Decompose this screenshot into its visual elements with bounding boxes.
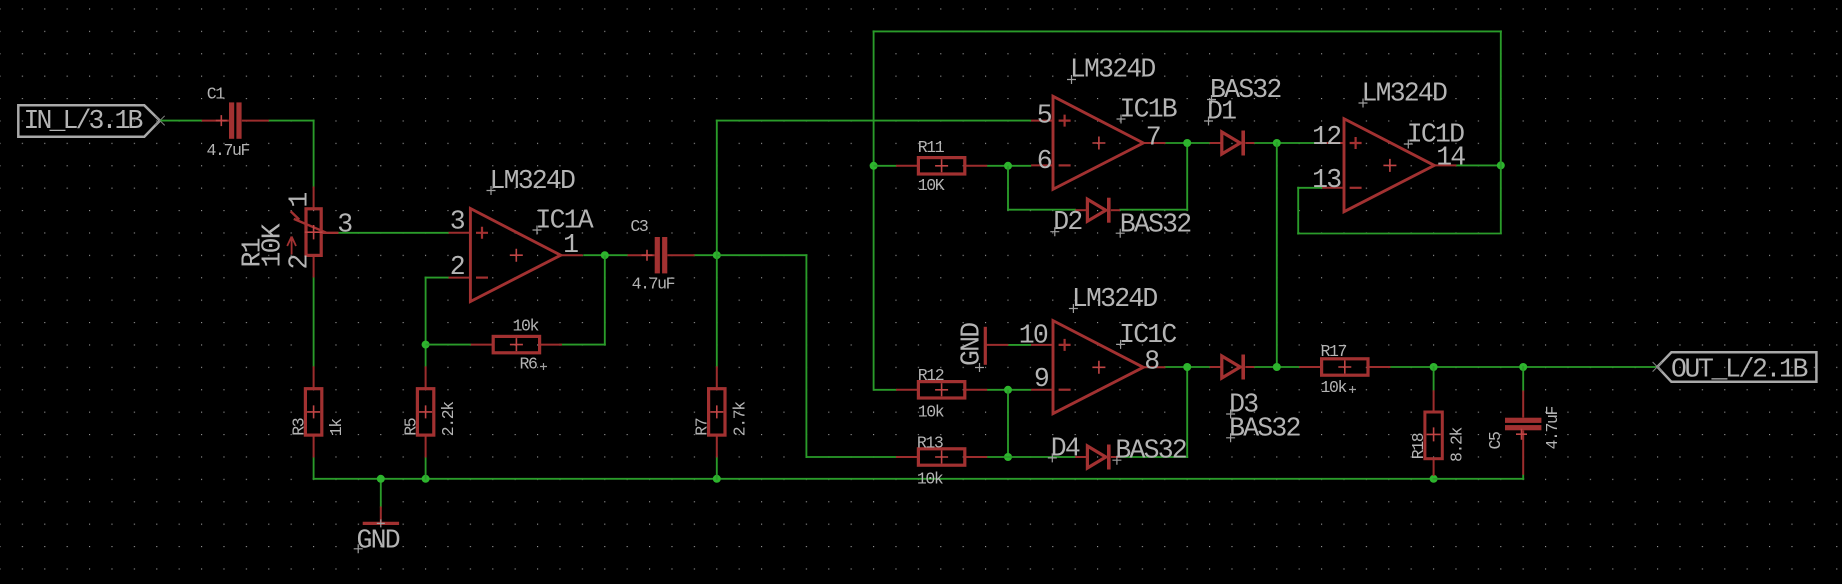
potentiometer R1 body	[287, 187, 338, 278]
wire IC1A pin2 left	[425, 277, 449, 279]
resistor R7 body	[709, 366, 725, 457]
svg-text:12: 12	[1312, 122, 1341, 152]
svg-text:D1: D1	[1207, 97, 1236, 127]
wire node up	[716, 120, 718, 257]
svg-text:14: 14	[1436, 143, 1465, 173]
wire node right	[717, 254, 808, 256]
diode D2 body	[1075, 198, 1120, 223]
wire bottom ground rail	[313, 478, 1435, 480]
junction IC1C output	[1183, 363, 1191, 371]
wire R5 bottom to rail	[425, 457, 427, 480]
svg-text:10k: 10k	[918, 402, 945, 421]
svg-text:10k: 10k	[513, 316, 540, 335]
capacitor C5 body	[1505, 391, 1541, 475]
junction pin9 node	[1004, 386, 1012, 394]
svg-text:10k: 10k	[917, 469, 944, 488]
junction C3 output node	[713, 251, 721, 259]
svg-text:4.7uF: 4.7uF	[207, 141, 250, 160]
wire R3 to bottom rail	[313, 457, 315, 480]
svg-text:3: 3	[450, 207, 465, 237]
wire down to R1 pin1	[313, 120, 315, 189]
wire C3 to node	[694, 254, 718, 256]
wire to IC1D pin13	[1297, 187, 1322, 189]
wire rail to GND symbol	[380, 479, 382, 508]
wire C1 to corner	[269, 120, 315, 122]
wire IC1D feedback down	[1500, 165, 1502, 233]
svg-text:R6: R6	[520, 355, 538, 374]
junction rail-R7	[713, 475, 721, 483]
svg-text:C5: C5	[1486, 432, 1505, 450]
junction IC1D output	[1497, 161, 1505, 169]
svg-text:IC1B: IC1B	[1120, 94, 1177, 124]
wire IC1D feedback bottom	[1297, 233, 1502, 235]
wire down to C5	[1522, 366, 1524, 391]
svg-text:5: 5	[1037, 101, 1052, 131]
wire R1 pin2 down to R3	[313, 276, 315, 367]
wire to IC1B pin5	[716, 120, 1031, 122]
svg-text:GND: GND	[957, 323, 987, 366]
wire to R13	[806, 456, 896, 458]
wire to R12	[874, 389, 897, 391]
svg-text:LM324D: LM324D	[490, 166, 576, 196]
diode D1 body	[1210, 131, 1255, 156]
svg-text:4.7uF: 4.7uF	[1543, 406, 1562, 449]
svg-text:1k: 1k	[327, 418, 346, 437]
wire D4 right	[1119, 456, 1188, 458]
junction R13-D4 node	[1004, 453, 1012, 461]
wire top rail	[873, 30, 1502, 32]
svg-text:C1: C1	[207, 84, 226, 103]
wire R18 bottom to rail	[1433, 475, 1435, 479]
wire feedback down	[604, 255, 606, 345]
diode D4 body	[1075, 445, 1120, 470]
svg-text:R12: R12	[918, 366, 944, 385]
svg-text:OUT_L/2.1B: OUT_L/2.1B	[1671, 354, 1808, 384]
wire down to R5/R6 node	[425, 277, 427, 368]
wire IC1D feedback up	[1297, 187, 1299, 235]
svg-text:R11: R11	[918, 138, 945, 157]
svg-text:4.7uF: 4.7uF	[632, 274, 675, 293]
svg-text:R7: R7	[693, 418, 712, 436]
junction IC1A output feedback	[601, 251, 609, 259]
junction D1 out tap	[1273, 139, 1281, 147]
junction R18 top	[1430, 363, 1438, 371]
junction rail-GND	[377, 475, 385, 483]
svg-text:C3: C3	[630, 217, 648, 236]
wire rail to C5	[1433, 478, 1525, 480]
svg-text:R5: R5	[402, 418, 421, 436]
wire R17 to OUT flag	[1389, 366, 1658, 368]
svg-text:8.2k: 8.2k	[1447, 426, 1466, 462]
net flag OUT_L/2.1B	[1653, 352, 1817, 384]
svg-text:IN_L/3.1B: IN_L/3.1B	[24, 106, 143, 136]
svg-text:LM324D: LM324D	[1362, 79, 1448, 109]
svg-text:1: 1	[563, 230, 578, 260]
wire D1 to IC1D pin12	[1254, 142, 1323, 144]
wire R13 to node	[986, 456, 1008, 458]
svg-text:9: 9	[1034, 364, 1049, 394]
svg-text:R18: R18	[1409, 433, 1428, 459]
svg-text:10: 10	[1019, 321, 1048, 351]
svg-text:1: 1	[285, 193, 315, 208]
junction R11 tap	[870, 162, 878, 170]
svg-text:10K: 10K	[918, 176, 945, 195]
wire down to R13 feed	[805, 254, 807, 458]
wire node to R6	[426, 344, 472, 346]
wire up to IC1C out	[1186, 366, 1188, 458]
op-amp IC1A body	[449, 209, 583, 302]
svg-text:R3: R3	[290, 418, 309, 436]
wire left vertical of top loop	[873, 30, 875, 390]
svg-text:10K: 10K	[258, 223, 288, 267]
svg-text:BAS32: BAS32	[1229, 413, 1300, 443]
junction IC1B output	[1183, 139, 1191, 147]
wire pin9 node down	[1007, 390, 1009, 458]
wire IC1B out to D1	[1164, 142, 1210, 144]
svg-text:7: 7	[1146, 123, 1160, 153]
svg-text:6: 6	[1037, 146, 1052, 176]
resistor R18 body	[1425, 390, 1442, 476]
wire IC1A out to C3	[583, 254, 628, 256]
ground symbol (IC1C pin10)	[985, 327, 1009, 365]
op-amp IC1B body	[1031, 96, 1165, 189]
resistor R3 body	[305, 366, 321, 457]
wire to R11	[874, 165, 897, 167]
wire IN_L flag to C1	[161, 120, 203, 122]
net flag IN_L/3.1B	[18, 105, 164, 136]
op-amp IC1C body	[1031, 321, 1165, 414]
wire node down to R7	[716, 255, 718, 367]
wire IC1C out to D3	[1164, 366, 1210, 368]
wire R7 bottom to rail	[716, 457, 718, 480]
resistor R11 body	[896, 158, 987, 174]
resistor R5 body	[417, 366, 433, 457]
wire to R6 right	[559, 344, 606, 346]
junction pin6 node	[1004, 162, 1012, 170]
capacitor C3 body	[628, 237, 695, 273]
wire C5 bottom corner	[1522, 475, 1524, 480]
junction C5 top	[1519, 363, 1527, 371]
wire R1 wiper to IC1A pin3	[338, 232, 450, 234]
wire GND to IC1C pin10	[1007, 344, 1031, 346]
svg-text:8: 8	[1144, 346, 1159, 376]
capacitor C1 body	[202, 102, 269, 138]
svg-text:13: 13	[1312, 165, 1341, 195]
svg-text:BAS32: BAS32	[1120, 209, 1191, 239]
svg-text:2: 2	[285, 255, 315, 270]
diode D3 body	[1210, 355, 1255, 380]
svg-text:R13: R13	[917, 433, 943, 452]
svg-text:D2: D2	[1053, 207, 1082, 237]
svg-text:GND: GND	[357, 526, 400, 556]
wire IC1D out up to top rail	[1500, 30, 1502, 166]
resistor R6 body	[471, 336, 562, 352]
wire node to D4	[1008, 456, 1076, 458]
wire pin6 node down	[1007, 166, 1009, 211]
wire down to R18	[1433, 366, 1435, 391]
op-amp IC1D body	[1322, 119, 1456, 212]
svg-text:3: 3	[337, 210, 352, 240]
svg-text:R17: R17	[1321, 342, 1347, 361]
svg-text:BAS32: BAS32	[1115, 436, 1186, 466]
junction R18 bottom	[1430, 475, 1438, 483]
svg-text:LM324D: LM324D	[1072, 284, 1158, 314]
wire D2 to feedback corner	[1119, 209, 1188, 211]
wire R11 to IC1B pin6	[987, 165, 1031, 167]
wire to D2	[1007, 209, 1076, 211]
wire down to D3 net	[1276, 142, 1278, 368]
svg-text:D4: D4	[1051, 433, 1080, 463]
junction rail-R5	[422, 475, 430, 483]
resistor R12 body	[896, 382, 987, 398]
resistor R13 body	[896, 449, 987, 465]
wire feedback up to IC1B out	[1186, 142, 1188, 211]
wire D3 to R17	[1254, 366, 1301, 368]
svg-text:10k: 10k	[1321, 378, 1348, 397]
svg-text:2: 2	[450, 252, 465, 282]
svg-text:2.2k: 2.2k	[439, 401, 458, 437]
resistor R17 body	[1299, 359, 1390, 375]
junction pin2-R6-R5	[422, 341, 430, 349]
junction D3 out	[1273, 363, 1281, 371]
wire R12 to IC1C pin9	[987, 389, 1031, 391]
svg-text:LM324D: LM324D	[1070, 55, 1156, 85]
ground symbol (bottom)	[363, 507, 399, 528]
svg-text:2.7k: 2.7k	[730, 401, 749, 437]
wire IC1D out	[1456, 164, 1502, 166]
